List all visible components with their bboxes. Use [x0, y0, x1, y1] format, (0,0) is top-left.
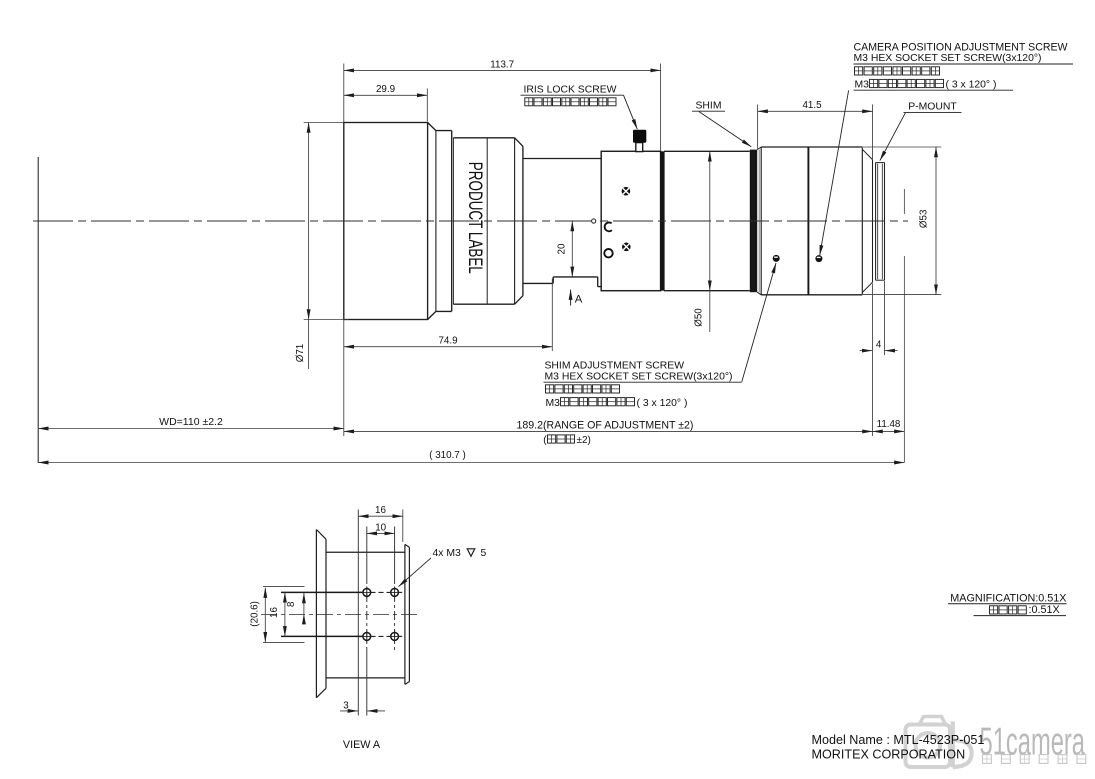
svg-text:5: 5 — [481, 548, 487, 559]
svg-text:P-MOUNT: P-MOUNT — [908, 102, 957, 113]
svg-text:M3 HEX SOCKET SET SCREW(3x120°: M3 HEX SOCKET SET SCREW(3x120°) — [545, 372, 733, 383]
svg-text:41.5: 41.5 — [802, 100, 822, 111]
svg-text:20: 20 — [557, 243, 568, 254]
svg-text:M3: M3 — [546, 398, 561, 409]
svg-text:189.2(RANGE OF ADJUSTMENT ±2): 189.2(RANGE OF ADJUSTMENT ±2) — [517, 420, 694, 432]
svg-text:M3: M3 — [855, 80, 870, 91]
svg-text:IRIS LOCK SCREW: IRIS LOCK SCREW — [524, 85, 617, 96]
svg-text:4x M3: 4x M3 — [433, 548, 462, 559]
svg-text:MAGNIFICATION:0.51X: MAGNIFICATION:0.51X — [950, 592, 1066, 604]
svg-text:8: 8 — [286, 601, 297, 607]
svg-text:3: 3 — [343, 700, 349, 711]
svg-text:WD=110 ±2.2: WD=110 ±2.2 — [159, 416, 223, 428]
svg-text:51camera: 51camera — [980, 721, 1086, 764]
svg-text:MORITEX CORPORATION: MORITEX CORPORATION — [812, 748, 966, 762]
svg-text:113.7: 113.7 — [490, 59, 514, 70]
svg-text:10: 10 — [375, 522, 386, 533]
svg-text:±2): ±2) — [577, 435, 591, 446]
svg-text:Ø53: Ø53 — [919, 209, 930, 228]
svg-text:SHIM: SHIM — [696, 100, 722, 111]
svg-text:A: A — [575, 293, 583, 305]
svg-text:29.9: 29.9 — [376, 84, 395, 95]
svg-text:( 3 x 120° ): ( 3 x 120° ) — [946, 80, 997, 91]
svg-text:74.9: 74.9 — [438, 336, 457, 347]
svg-text:4: 4 — [876, 339, 882, 350]
svg-text:Model Name : MTL-4523P-051: Model Name : MTL-4523P-051 — [812, 733, 985, 747]
svg-text:Ø50: Ø50 — [694, 308, 705, 327]
svg-text:16: 16 — [375, 505, 386, 516]
svg-text:11.48: 11.48 — [877, 419, 901, 430]
svg-text:Ø71: Ø71 — [295, 344, 306, 363]
svg-text:PRODUCT LABEL: PRODUCT LABEL — [464, 162, 485, 274]
svg-text:( 310.7 ): ( 310.7 ) — [429, 450, 466, 461]
svg-text:16: 16 — [269, 607, 280, 618]
svg-text::0.51X: :0.51X — [1029, 604, 1060, 616]
svg-text:(20.6): (20.6) — [250, 601, 261, 627]
svg-text:( 3 x 120° ): ( 3 x 120° ) — [637, 398, 688, 409]
svg-text:SHIM ADJUSTMENT SCREW: SHIM ADJUSTMENT SCREW — [545, 361, 685, 372]
svg-text:CAMERA POSITION ADJUSTMENT SCR: CAMERA POSITION ADJUSTMENT SCREW — [854, 41, 1068, 53]
svg-text:VIEW A: VIEW A — [343, 739, 381, 751]
svg-text:M3 HEX SOCKET SET SCREW(3x120°: M3 HEX SOCKET SET SCREW(3x120°) — [854, 53, 1042, 64]
